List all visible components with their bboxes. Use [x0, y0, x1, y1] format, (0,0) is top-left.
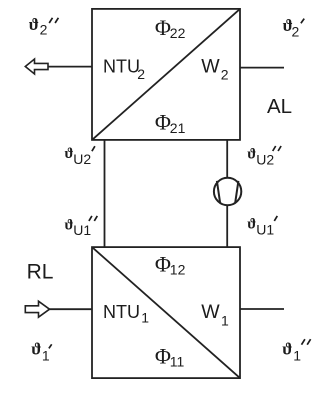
svg-text:Φ: Φ [155, 110, 171, 135]
wire right connecting line [226, 140, 228, 247]
svg-text:ϑ: ϑ [31, 340, 41, 359]
node label thetaU2'' (right) [247, 146, 281, 167]
label NTU1 [103, 302, 149, 326]
heat exchanger box NTU1/W1 [92, 247, 240, 378]
svg-text:U1: U1 [256, 221, 274, 237]
svg-text:Φ: Φ [155, 252, 171, 277]
svg-text:Φ: Φ [155, 15, 171, 40]
svg-text:21: 21 [170, 120, 186, 136]
svg-text:2: 2 [292, 23, 300, 39]
label Phi12 [155, 252, 186, 278]
svg-text:1: 1 [141, 310, 149, 326]
svg-text:2: 2 [137, 66, 145, 82]
label W1 [201, 301, 229, 329]
svg-text:1: 1 [293, 348, 301, 364]
svg-text:12: 12 [170, 262, 186, 278]
label NTU2 [103, 57, 145, 82]
diagonal divider of NTU1 box [92, 247, 240, 378]
svg-text:Φ: Φ [155, 344, 171, 369]
diagonal divider of NTU2 box [92, 9, 240, 140]
svg-text:U2: U2 [256, 151, 274, 167]
svg-text:U1: U1 [73, 222, 91, 238]
svg-text:11: 11 [170, 353, 185, 369]
svg-text:W: W [201, 56, 220, 78]
label W2 [201, 56, 229, 83]
outlet arrow pointing left (top) [25, 59, 48, 74]
heat exchanger box NTU2/W2 [92, 9, 240, 140]
pump circle [214, 178, 241, 205]
wire from inlet arrow to bottom box [50, 308, 93, 310]
node label thetaU2' (left) [65, 146, 95, 167]
node label theta1' (bottom left) [31, 340, 52, 364]
inlet arrow pointing right (bottom) [25, 301, 49, 317]
svg-text:1: 1 [221, 312, 229, 328]
label Phi22 [155, 15, 186, 41]
svg-text:2: 2 [40, 22, 48, 38]
wire stub right of W1 [240, 308, 284, 310]
node label theta2' (top right) [283, 16, 305, 39]
svg-text:ϑ: ϑ [247, 217, 256, 233]
svg-text:ϑ: ϑ [29, 15, 39, 34]
pump vane right [235, 181, 238, 203]
svg-text:22: 22 [170, 25, 186, 41]
pump vane left [217, 181, 220, 203]
svg-text:NTU: NTU [103, 302, 140, 322]
label Phi21 [155, 110, 186, 136]
wire stub right of W2 [240, 67, 284, 69]
svg-text:ϑ: ϑ [282, 340, 292, 359]
svg-text:ϑ: ϑ [247, 147, 256, 163]
svg-text:W: W [201, 301, 220, 323]
svg-text:ϑ: ϑ [65, 146, 74, 162]
node label theta2'' (top left) [29, 15, 59, 38]
svg-text:2: 2 [221, 67, 229, 83]
node label theta1'' (bottom right) [282, 339, 310, 363]
node label thetaU1' (right) [247, 216, 277, 237]
svg-text:AL: AL [267, 95, 292, 118]
wire from top box to outlet arrow [48, 66, 93, 68]
svg-text:NTU: NTU [103, 57, 140, 77]
svg-text:ϑ: ϑ [65, 218, 74, 234]
svg-text:RL: RL [27, 261, 54, 284]
wire left connecting line [104, 140, 106, 247]
label Phi11 [155, 344, 185, 370]
svg-text:U2: U2 [73, 151, 91, 167]
node label thetaU1'' (left) [65, 216, 98, 238]
svg-text:1: 1 [42, 348, 50, 364]
